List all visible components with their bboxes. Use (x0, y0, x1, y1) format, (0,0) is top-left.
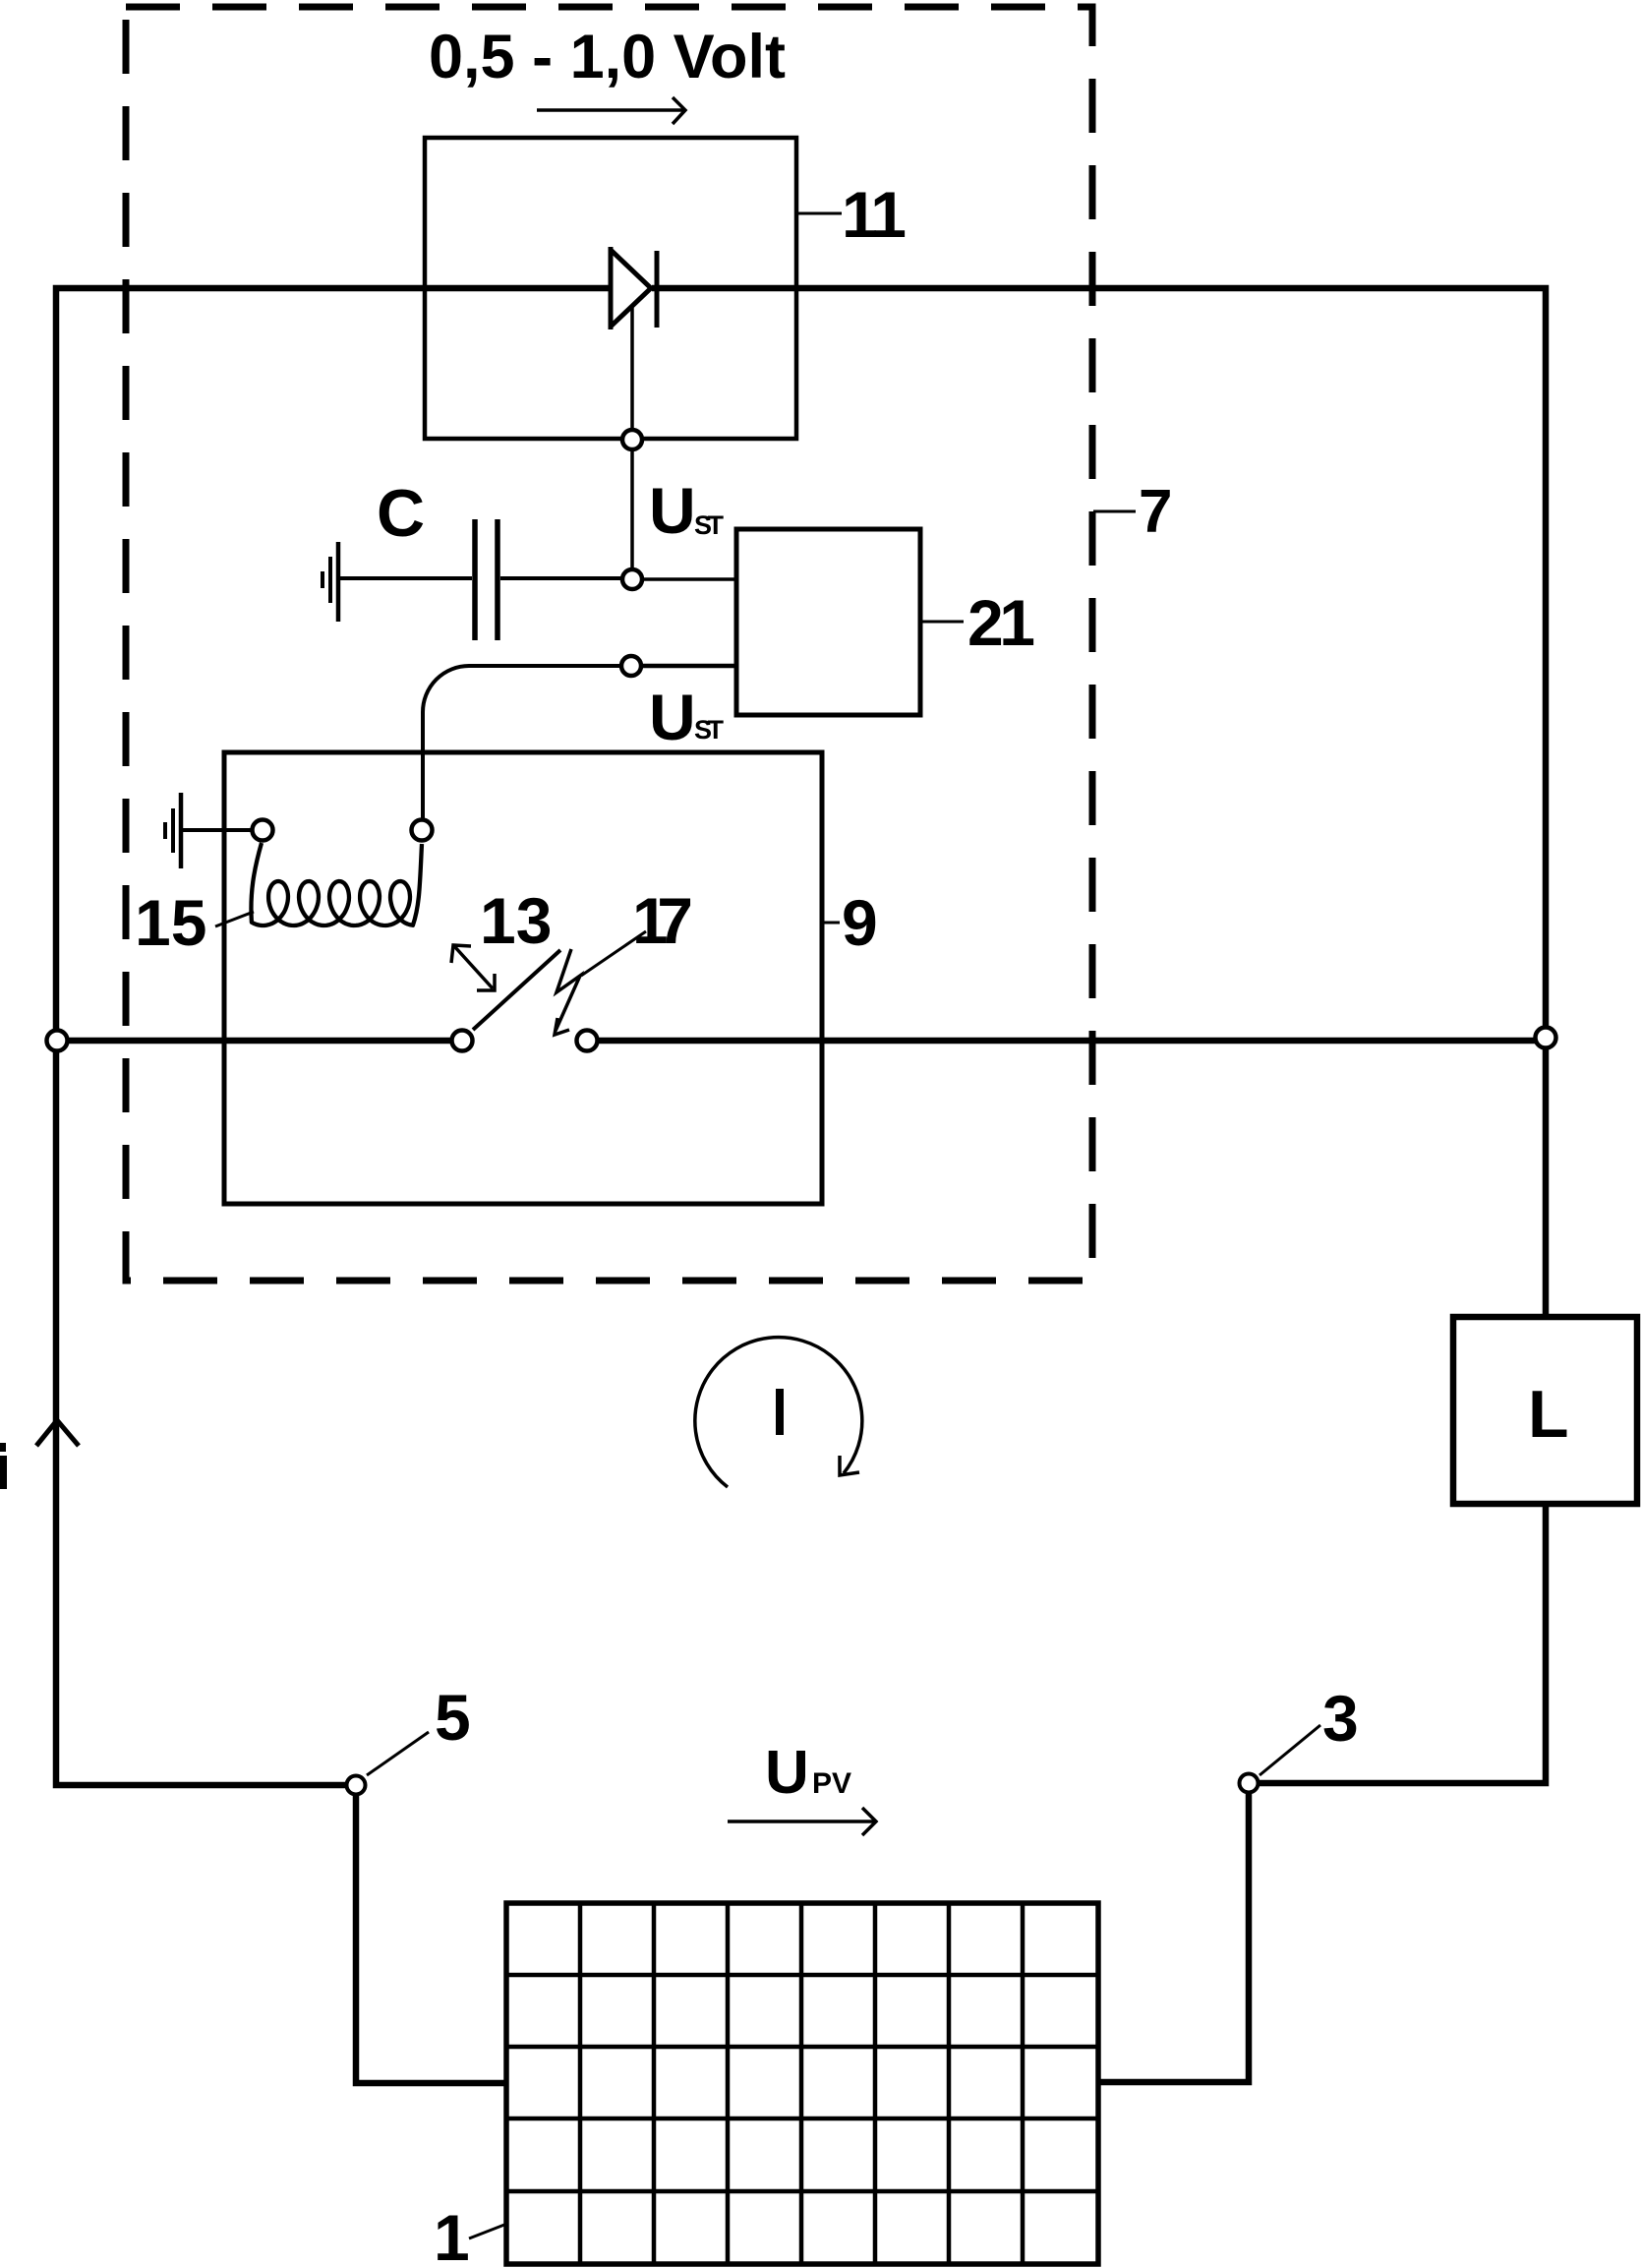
wire: ground to coil node (183, 828, 263, 832)
wire: node 5 down and right into solar panel (356, 1785, 505, 2083)
svg-text:5: 5 (435, 1681, 471, 1754)
wire: ground to capacitor left plate (340, 576, 472, 580)
node 3 (1240, 1774, 1259, 1793)
lightning arrow 17 (555, 949, 580, 1035)
svg-text:1: 1 (434, 2201, 470, 2268)
svg-text:21: 21 (967, 586, 1035, 659)
svg-text:15: 15 (135, 886, 206, 959)
node at right wire junction (1536, 1028, 1556, 1048)
node 5 (347, 1776, 366, 1795)
label 5 (367, 1681, 471, 1775)
svg-text:9: 9 (842, 886, 878, 959)
label 11 (796, 178, 907, 251)
arrow under Volt label (537, 97, 685, 124)
svg-text:7: 7 (1139, 478, 1172, 546)
label 0,5 - 1,0 Volt (429, 23, 786, 91)
label 17 (632, 884, 693, 957)
node at coil right terminal (412, 820, 433, 841)
block box 11 (425, 138, 796, 439)
arrow under Upv (728, 1808, 876, 1835)
ground symbol at relay coil (165, 793, 181, 868)
svg-text:U: U (765, 1739, 809, 1807)
dashed enclosure box 7 (126, 7, 1092, 1281)
wire: node down to Ust node (630, 450, 634, 579)
node at Ust junction (622, 569, 642, 589)
load box L (1453, 1317, 1637, 1504)
solar panel 1 grid (506, 1903, 1098, 2264)
svg-text:U: U (649, 681, 696, 753)
label 9 (822, 886, 878, 959)
label 1 (434, 2201, 504, 2268)
label L (1528, 1377, 1569, 1452)
switch contact right (577, 1031, 598, 1051)
svg-text:ST: ST (694, 510, 725, 540)
switch blade 13 (473, 950, 560, 1030)
relay block box 9 (224, 752, 822, 1204)
wire: middle horizontal left segment to switch contact (56, 1038, 462, 1044)
wire: middle horizontal right segment from switch contact (587, 1038, 1546, 1044)
node at lower Ust junction (621, 656, 641, 676)
wire: capacitor right plate to node (500, 576, 632, 580)
svg-text:13: 13 (480, 884, 552, 957)
label I (776, 1389, 784, 1435)
svg-text:11: 11 (842, 178, 907, 251)
label 13 (480, 884, 552, 957)
svg-text:PV: PV (812, 1767, 851, 1800)
switch contact left (452, 1031, 473, 1051)
label Ust (lower) (649, 681, 725, 753)
svg-text:C: C (377, 476, 425, 551)
current arrow i on left wire (36, 1420, 79, 1446)
relay coil 15 (251, 843, 422, 925)
label Ust (upper) (649, 474, 725, 547)
wire: diode tap down to node (630, 308, 634, 440)
label i (clipped at left edge) (0, 1443, 7, 1489)
wire: lower node to box 21 lower input (642, 664, 736, 669)
wire: right vertical below L box to node 3 (1249, 1504, 1546, 1783)
label 15 (135, 886, 254, 959)
svg-text:ST: ST (694, 715, 725, 745)
ground symbol at capacitor (322, 542, 338, 622)
node at coil left terminal (253, 820, 273, 841)
wire: node to box 21 upper input (643, 577, 736, 581)
label Upv (765, 1739, 851, 1807)
label 3 (1260, 1682, 1359, 1775)
circular current arrow I (695, 1338, 862, 1487)
svg-text:L: L (1528, 1377, 1569, 1452)
wire: curved wire from lower node to relay coil (423, 666, 631, 819)
svg-text:U: U (649, 474, 696, 547)
node on box 11 bottom edge (622, 430, 642, 449)
block box 21 (736, 529, 920, 715)
node at left wire junction (47, 1031, 68, 1051)
svg-text:0,5 - 1,0 Volt: 0,5 - 1,0 Volt (429, 23, 786, 91)
capacitor C plates (475, 519, 498, 640)
pointer line from 17 (581, 931, 646, 976)
wire: node 3 down and left into solar panel (1098, 1783, 1249, 2082)
label C (377, 476, 425, 551)
diode D inside box 11 (611, 247, 657, 329)
svg-text:3: 3 (1322, 1682, 1359, 1755)
double arrow pointer for 13 (451, 945, 495, 990)
wire: right loop (diode cathode to top-right corner, right vertical to L box) (652, 288, 1546, 1317)
wire: left loop (top horizontal to diode anode, left vertical, bottom horizontal to node 5) (56, 288, 611, 1785)
label 21 (920, 586, 1035, 659)
label 7 (1093, 478, 1172, 546)
svg-text:17: 17 (632, 884, 693, 957)
